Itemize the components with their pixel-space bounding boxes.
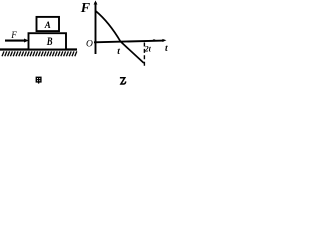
svg-text:A: A — [44, 20, 51, 30]
block B — [29, 33, 67, 49]
force-time line — [96, 11, 144, 63]
svg-text:F: F — [10, 30, 17, 40]
dashed line at 2t — [143, 43, 145, 68]
svg-text:2t: 2t — [144, 44, 152, 53]
ground — [0, 48, 77, 50]
background — [0, 0, 169, 87]
svg-text:F: F — [80, 1, 91, 16]
block A — [37, 17, 60, 31]
hatching — [2, 51, 77, 56]
svg-text:B: B — [46, 36, 53, 48]
svg-text:t: t — [117, 47, 120, 57]
svg-text:O: O — [86, 39, 93, 49]
svg-text:t: t — [165, 44, 168, 54]
t axis (horizontal) — [94, 41, 164, 43]
label jia (caption 甲) — [36, 77, 41, 83]
force arrow — [5, 40, 26, 42]
F axis (vertical) — [95, 2, 97, 54]
tick on t axis — [153, 39, 155, 41]
label yi (caption 乙) — [120, 78, 126, 84]
